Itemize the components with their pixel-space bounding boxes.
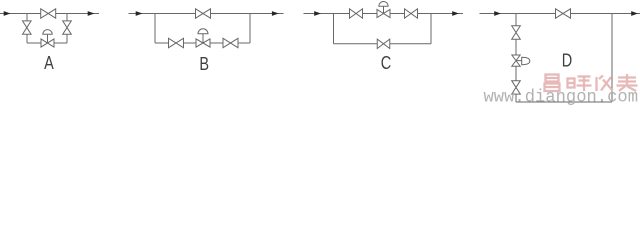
control valve C actuator stem xyxy=(383,6,385,13)
wire B main line xyxy=(129,13,284,15)
wire B bypass bottom run xyxy=(155,42,250,44)
wire D branch left drop xyxy=(515,14,517,103)
arrow C inlet flow xyxy=(314,11,321,16)
wire A main line xyxy=(0,13,99,15)
control valve A body xyxy=(41,39,54,47)
wire A bypass left drop xyxy=(26,14,28,44)
valve D main block valve xyxy=(556,9,571,18)
valve D branch upper block valve xyxy=(512,26,521,39)
valve B main block valve xyxy=(196,9,211,18)
arrow B outlet flow xyxy=(272,11,279,16)
control valve A actuator diaphragm xyxy=(43,30,52,35)
valve B bypass left block valve xyxy=(169,38,184,47)
wire C main line xyxy=(304,13,464,15)
wire C bypass left drop xyxy=(333,14,335,44)
svg-text:C: C xyxy=(381,52,391,73)
arrow A outlet flow xyxy=(88,11,95,16)
valve C bypass block valve xyxy=(377,39,390,48)
svg-text:www.diangon.com: www.diangon.com xyxy=(484,87,639,107)
glyph 昌 xyxy=(545,75,560,92)
valve C main right block valve xyxy=(405,9,418,18)
wire C bypass bottom run xyxy=(334,43,432,45)
valve A bypass right block valve xyxy=(63,21,72,34)
valve A main block valve xyxy=(41,9,56,18)
valve C main left block valve xyxy=(350,9,363,18)
svg-text:B: B xyxy=(199,53,209,74)
arrow A inlet flow xyxy=(4,11,11,16)
arrow C outlet flow xyxy=(452,11,459,16)
wire B bypass right riser xyxy=(249,14,251,44)
glyph 仪 xyxy=(597,76,613,92)
control valve A actuator stem xyxy=(47,34,49,43)
glyph 晖 xyxy=(568,77,592,92)
wire A bypass bottom run xyxy=(27,42,67,44)
wire D branch bottom run xyxy=(516,101,612,103)
wire D main line xyxy=(480,13,640,15)
control valve B body xyxy=(196,39,210,47)
arrow D inlet flow xyxy=(494,11,501,16)
arrow B inlet flow xyxy=(136,11,143,16)
control valve D body xyxy=(512,55,520,66)
wire A bypass right riser xyxy=(66,14,68,44)
arrow D outlet flow xyxy=(631,11,638,16)
control valve C actuator diaphragm xyxy=(379,1,388,6)
valve A bypass left block valve xyxy=(23,21,32,34)
valve B bypass right block valve xyxy=(223,38,238,47)
control valve C body xyxy=(377,9,390,17)
wire B bypass left drop xyxy=(154,14,156,44)
control valve D actuator stem xyxy=(516,60,522,62)
wire C bypass right riser xyxy=(430,14,432,44)
svg-text:D: D xyxy=(562,50,572,71)
svg-text:A: A xyxy=(44,52,54,73)
glyph 表 xyxy=(617,74,638,91)
wire D branch right riser xyxy=(611,14,613,103)
watermark logo text 昌晖仪表 (pink) xyxy=(545,74,638,91)
control valve B actuator stem xyxy=(202,34,204,43)
control valve D actuator diaphragm xyxy=(522,57,530,64)
control valve B actuator diaphragm xyxy=(198,29,208,34)
valve D branch lower block valve xyxy=(512,81,521,94)
